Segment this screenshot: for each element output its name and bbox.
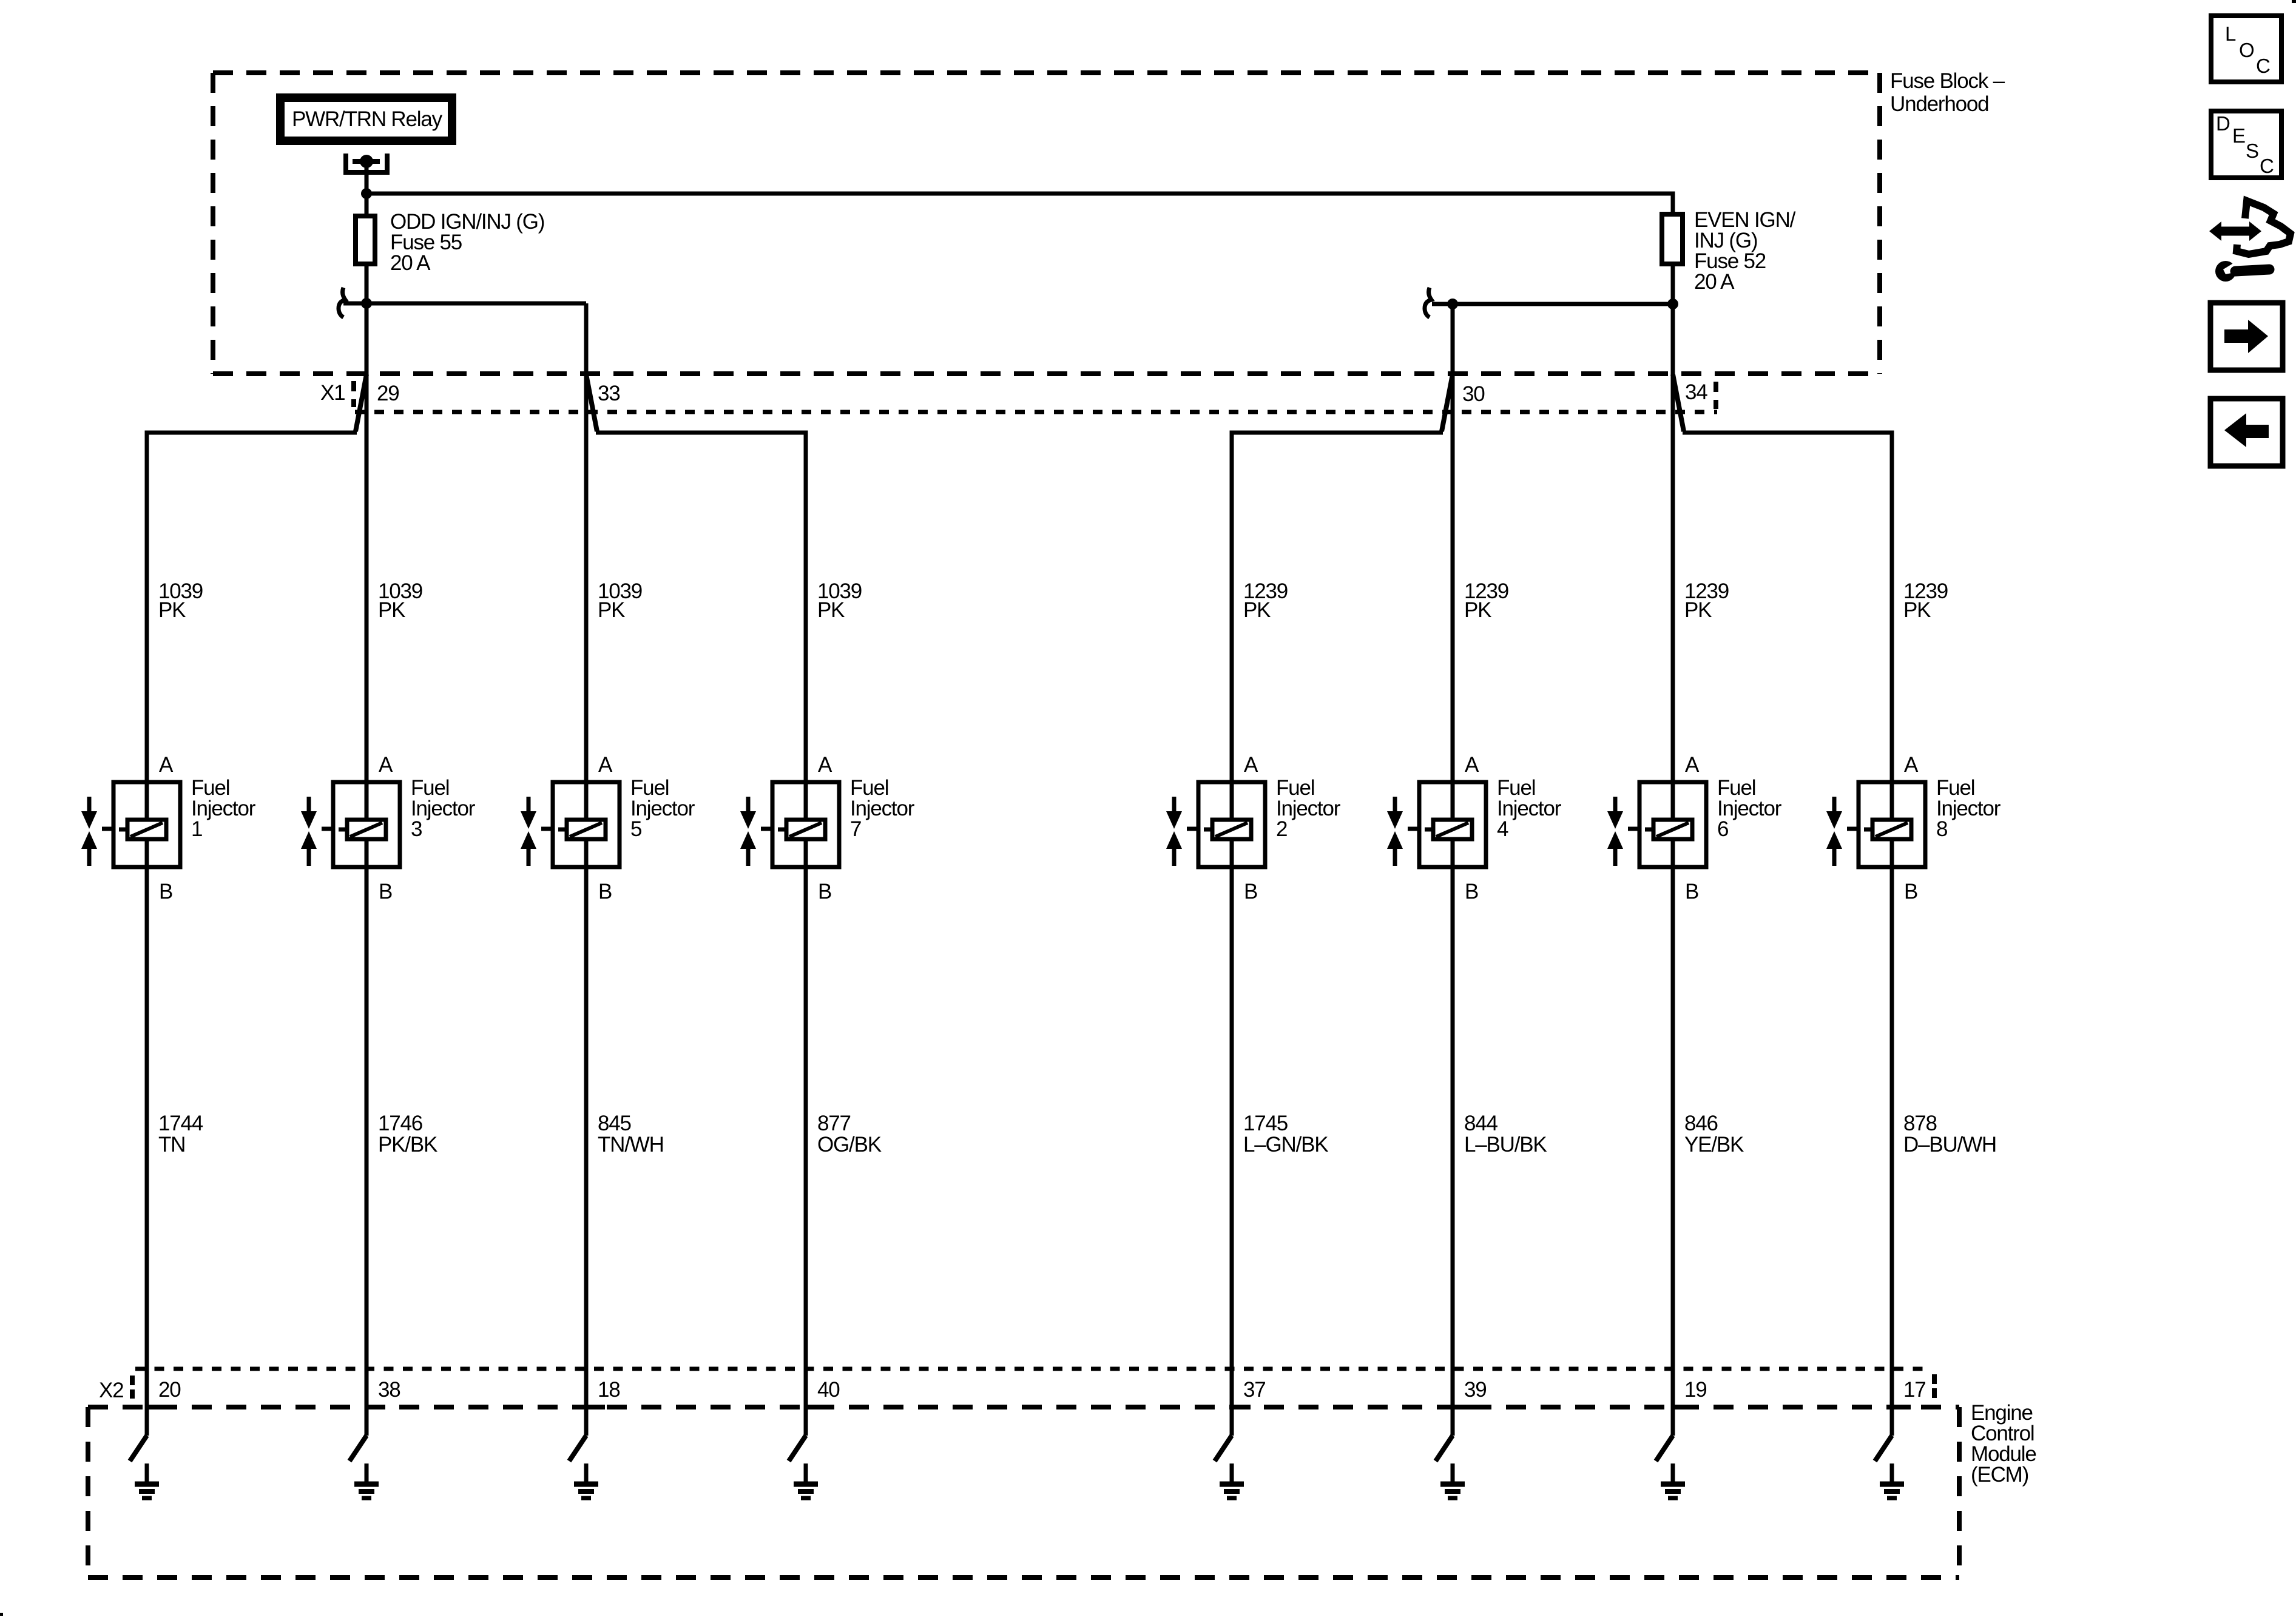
svg-text:A: A xyxy=(598,753,613,777)
fuel injector 5 xyxy=(521,753,695,903)
svg-text:(ECM): (ECM) xyxy=(1971,1463,2028,1487)
wire label 846 YE/BK circuit xyxy=(1684,1112,1744,1156)
svg-text:877: 877 xyxy=(817,1112,851,1135)
switch slant to ground col 8 xyxy=(1875,1436,1892,1461)
svg-text:A: A xyxy=(1685,753,1700,777)
switch slant to ground col 6 xyxy=(1436,1436,1453,1461)
splice curl at fuse 55 output xyxy=(339,288,345,317)
pin tick at ECM border col 3 xyxy=(586,1405,605,1409)
svg-text:O: O xyxy=(2239,39,2255,61)
wire: pin 34 column down to injector 6 xyxy=(1671,304,1675,780)
switch slant to ground col 1 xyxy=(130,1436,147,1461)
svg-text:PK: PK xyxy=(1464,598,1491,622)
connector X2 dotted tick xyxy=(130,1376,135,1399)
fuel injector 6 xyxy=(1607,753,1782,903)
svg-text:7: 7 xyxy=(850,817,861,841)
label: Fuse Block - Underhood xyxy=(1890,69,2005,116)
wire label 1039 PK circuit xyxy=(598,579,642,622)
node: fuse 52 output junction xyxy=(1667,299,1678,309)
wire: branch to injector 7 column xyxy=(596,433,806,780)
svg-text:YE/BK: YE/BK xyxy=(1684,1133,1744,1156)
wire: pin 33 column down to injector 5 xyxy=(584,303,589,780)
wire: injector 6 to ECM pin xyxy=(1671,869,1675,1436)
wire: fuse 52 to output junction xyxy=(1671,266,1675,304)
svg-text:845: 845 xyxy=(598,1112,631,1135)
pin tick at ECM border col 4 xyxy=(806,1405,825,1409)
fuel injector 1 xyxy=(81,753,256,903)
wire label 1239 PK circuit xyxy=(1464,579,1508,622)
svg-text:PK: PK xyxy=(1243,598,1271,622)
ground symbol col 2 xyxy=(354,1463,379,1498)
svg-text:34: 34 xyxy=(1685,380,1707,404)
wire label 877 OG/BK circuit xyxy=(817,1112,882,1156)
wire: pin 30 slant branch xyxy=(1442,374,1453,431)
svg-text:A: A xyxy=(818,753,832,777)
svg-text:L–GN/BK: L–GN/BK xyxy=(1243,1133,1328,1156)
node: feed junction at relay output xyxy=(361,188,372,199)
svg-text:1: 1 xyxy=(191,817,202,841)
switch slant to ground col 3 xyxy=(569,1436,586,1461)
wire label 1744 TN circuit xyxy=(158,1112,203,1156)
icon: repair double arrow with wrench xyxy=(2209,201,2291,282)
wire: pin 33 slant branch xyxy=(586,374,597,431)
svg-text:5: 5 xyxy=(630,817,641,841)
svg-text:D–BU/WH: D–BU/WH xyxy=(1903,1133,1996,1156)
node: fuse 55 output junction xyxy=(361,298,372,309)
svg-text:A: A xyxy=(1465,753,1479,777)
svg-text:B: B xyxy=(159,880,172,903)
svg-text:E: E xyxy=(2232,124,2246,147)
fuse F52 EVEN IGN/INJ xyxy=(1662,208,1796,294)
fuse F55 ODD IGN/INJ xyxy=(356,210,544,275)
svg-text:A: A xyxy=(1904,753,1919,777)
svg-text:20 A: 20 A xyxy=(1694,270,1735,294)
svg-text:PK: PK xyxy=(158,598,186,622)
svg-text:Underhood: Underhood xyxy=(1890,92,1988,116)
svg-text:A: A xyxy=(1244,753,1258,777)
svg-text:3: 3 xyxy=(411,817,422,841)
ground symbol col 4 xyxy=(794,1463,818,1498)
svg-text:18: 18 xyxy=(598,1378,620,1402)
svg-text:B: B xyxy=(598,880,612,903)
relay contact (PWR/TRN relay switch) xyxy=(346,154,387,172)
wire label 845 TN/WH circuit xyxy=(598,1112,664,1156)
ground symbol col 7 xyxy=(1661,1463,1685,1498)
svg-text:PK/BK: PK/BK xyxy=(378,1133,437,1156)
svg-text:20 A: 20 A xyxy=(390,251,431,275)
svg-text:38: 38 xyxy=(378,1378,400,1402)
svg-text:B: B xyxy=(1465,880,1478,903)
switch slant to ground col 4 xyxy=(789,1436,806,1461)
pin tick at ECM border col 8 xyxy=(1892,1405,1911,1409)
pin tick at ECM border col 1 xyxy=(147,1405,166,1409)
svg-text:1744: 1744 xyxy=(158,1112,203,1135)
wire: fuse 55 output to pin 33 drop xyxy=(366,302,586,306)
fuel injector 4 xyxy=(1387,753,1562,903)
page corner mark bottom left xyxy=(0,1613,3,1616)
wire: injector 8 to ECM pin xyxy=(1890,869,1894,1436)
connector X1 dotted tick xyxy=(351,381,356,407)
wire: branch to injector 8 column xyxy=(1683,433,1892,780)
pin tick at ECM border col 2 xyxy=(366,1405,385,1409)
connector X1 face dashed line xyxy=(355,410,1717,414)
label: Engine Control Module (ECM) xyxy=(1971,1401,2036,1487)
wire: fuse 55 to output junction xyxy=(365,266,369,303)
pin tick at ECM border col 6 xyxy=(1453,1405,1471,1409)
wire: stub to curl right side xyxy=(1432,302,1453,306)
svg-text:B: B xyxy=(379,880,392,903)
switch slant to ground col 2 xyxy=(349,1436,366,1461)
svg-text:29: 29 xyxy=(377,382,399,405)
wire: pin 30 column down to injector 4 xyxy=(1451,304,1455,780)
wire: fuse 52 output to pin 30 drop xyxy=(1453,302,1673,306)
pin tick at ECM border col 5 xyxy=(1232,1405,1251,1409)
svg-text:2: 2 xyxy=(1276,817,1287,841)
svg-text:C: C xyxy=(2260,155,2274,177)
ground symbol col 8 xyxy=(1880,1463,1904,1498)
wire label 1239 PK circuit xyxy=(1903,579,1948,622)
wire label 844 L-BU/BK circuit xyxy=(1464,1112,1547,1156)
svg-text:A: A xyxy=(379,753,393,777)
fuel injector 7 xyxy=(740,753,915,903)
ground symbol col 6 xyxy=(1440,1463,1465,1498)
wire: relay output down to feed junction xyxy=(365,161,369,194)
icon: back arrow box xyxy=(2210,399,2283,466)
wire: stub to curl xyxy=(343,302,366,306)
wire: injector 4 to ECM pin xyxy=(1451,869,1455,1436)
wire: injector 5 to ECM pin xyxy=(584,869,589,1436)
svg-text:4: 4 xyxy=(1497,817,1508,841)
svg-text:1745: 1745 xyxy=(1243,1112,1288,1135)
icon: forward arrow box xyxy=(2210,303,2283,370)
wire label 1239 PK circuit xyxy=(1243,579,1288,622)
svg-text:L: L xyxy=(2225,22,2236,45)
svg-text:PK: PK xyxy=(598,598,625,622)
wire: injector 7 to ECM pin xyxy=(804,869,808,1436)
switch slant to ground col 5 xyxy=(1215,1436,1232,1461)
wire: main feed bus to fuse 52 xyxy=(366,194,1673,212)
ground symbol col 3 xyxy=(574,1463,598,1498)
svg-text:PK: PK xyxy=(1903,598,1931,622)
node: pin 30 branch junction xyxy=(1447,299,1458,309)
splice curl at pin 30 branch xyxy=(1425,288,1431,317)
svg-text:33: 33 xyxy=(598,382,620,405)
wire label 1746 PK/BK circuit xyxy=(378,1112,437,1156)
svg-text:OG/BK: OG/BK xyxy=(817,1133,882,1156)
svg-text:PK: PK xyxy=(1684,598,1712,622)
svg-text:B: B xyxy=(818,880,831,903)
wire label 1239 PK circuit xyxy=(1684,579,1729,622)
icon: LOC box xyxy=(2211,16,2281,82)
svg-text:S: S xyxy=(2246,140,2259,162)
svg-text:40: 40 xyxy=(817,1378,840,1402)
svg-text:30: 30 xyxy=(1462,382,1485,406)
pin 17 dotted tick xyxy=(1932,1374,1937,1399)
wire label 1039 PK circuit xyxy=(158,579,203,622)
svg-text:PK: PK xyxy=(378,598,405,622)
svg-text:17: 17 xyxy=(1903,1378,1926,1402)
pin 34 dotted tick xyxy=(1714,382,1718,409)
svg-text:878: 878 xyxy=(1903,1112,1937,1135)
svg-text:X2: X2 xyxy=(99,1379,123,1402)
pin tick at ECM border col 7 xyxy=(1673,1405,1692,1409)
svg-text:37: 37 xyxy=(1243,1378,1266,1402)
wire: pin 34 slant branch xyxy=(1673,374,1684,431)
switch slant to ground col 7 xyxy=(1656,1436,1673,1461)
svg-text:L–BU/BK: L–BU/BK xyxy=(1464,1133,1547,1156)
svg-text:PK: PK xyxy=(817,598,845,622)
ECM dashed box xyxy=(88,1407,1959,1578)
svg-text:TN: TN xyxy=(158,1133,185,1156)
connector X2 face dashed line xyxy=(135,1367,1931,1371)
svg-text:B: B xyxy=(1904,880,1917,903)
icon: DESC box xyxy=(2211,111,2281,178)
svg-text:PWR/TRN Relay: PWR/TRN Relay xyxy=(292,107,443,131)
wire: pin 29 column down to injector 3 xyxy=(365,303,369,780)
relay: PWR/TRN Relay label box xyxy=(280,98,452,141)
svg-text:8: 8 xyxy=(1936,817,1947,841)
svg-text:Fuse Block –: Fuse Block – xyxy=(1890,69,2005,93)
svg-text:1746: 1746 xyxy=(378,1112,422,1135)
wire: branch to injector 1 column xyxy=(147,433,357,780)
wire: injector 1 to ECM pin xyxy=(145,869,149,1436)
svg-text:846: 846 xyxy=(1684,1112,1718,1135)
fuel injector 2 xyxy=(1166,753,1341,903)
fuel injector 3 xyxy=(301,753,476,903)
svg-text:A: A xyxy=(159,753,174,777)
svg-text:844: 844 xyxy=(1464,1112,1498,1135)
svg-text:B: B xyxy=(1244,880,1257,903)
wire: injector 2 to ECM pin xyxy=(1230,869,1234,1436)
ground symbol col 1 xyxy=(135,1463,159,1498)
fuel injector 8 xyxy=(1826,753,2001,903)
wire label 1039 PK circuit xyxy=(817,579,862,622)
svg-text:X1: X1 xyxy=(320,381,345,405)
ground symbol col 5 xyxy=(1220,1463,1244,1498)
svg-text:19: 19 xyxy=(1684,1378,1707,1402)
svg-text:TN/WH: TN/WH xyxy=(598,1133,664,1156)
wire: pin 29 slant branch xyxy=(356,374,366,431)
svg-text:B: B xyxy=(1685,880,1698,903)
svg-text:C: C xyxy=(2256,55,2271,77)
wire: junction to fuse 55 xyxy=(365,194,369,216)
wire label 1745 L-GN/BK circuit xyxy=(1243,1112,1328,1156)
svg-text:6: 6 xyxy=(1717,817,1728,841)
wire label 878 D-BU/WH circuit xyxy=(1903,1112,1996,1156)
fuse block underhood dashed box xyxy=(213,73,1880,374)
svg-text:39: 39 xyxy=(1464,1378,1487,1402)
wire label 1039 PK circuit xyxy=(378,579,422,622)
page corner mark top right xyxy=(2292,0,2296,3)
svg-text:20: 20 xyxy=(158,1378,181,1402)
wire: injector 3 to ECM pin xyxy=(365,869,369,1436)
wire: branch to injector 2 column xyxy=(1232,433,1443,780)
svg-text:D: D xyxy=(2216,112,2230,135)
